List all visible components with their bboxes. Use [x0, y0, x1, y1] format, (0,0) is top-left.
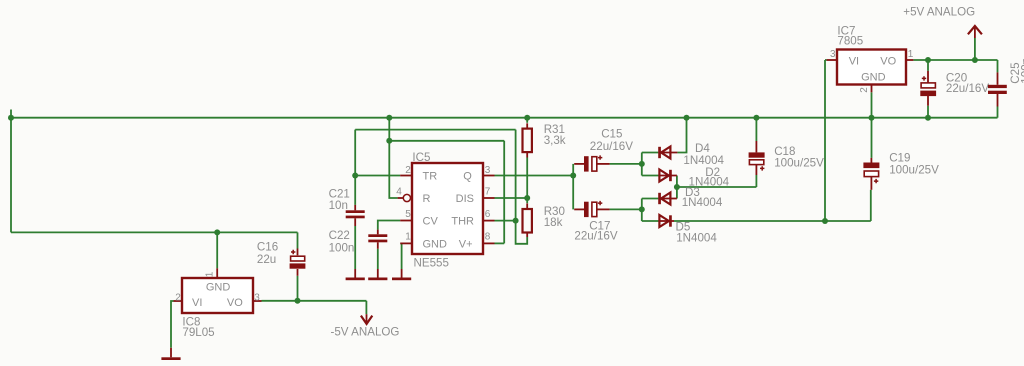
svg-text:V+: V+ — [459, 239, 473, 251]
wire -5V drop — [365, 301, 367, 314]
node junction rail/R31 — [524, 115, 530, 121]
svg-text:VO: VO — [227, 297, 243, 309]
wire IC7 VI vertical — [824, 60, 826, 221]
wire R31 bottom to DIS — [526, 158, 528, 199]
node junction VI/D5 line — [822, 218, 828, 224]
capacitor C17 — [574, 208, 584, 210]
svg-text:1: 1 — [205, 271, 216, 277]
node junction rail/555 — [386, 115, 392, 121]
svg-text:3: 3 — [485, 165, 491, 176]
node junction IC7 gnd/rail — [869, 115, 875, 121]
node junction C15/diodes — [639, 161, 645, 167]
wire lower-left horizontal — [11, 231, 298, 233]
wire D3-D5 vertical — [641, 199, 643, 222]
wire THR to R30 bottom loop — [516, 221, 528, 244]
wire C18 top — [755, 118, 757, 141]
wire stub top-left — [10, 110, 12, 118]
svg-text:C22: C22 — [329, 229, 350, 242]
wire +5V stem — [974, 38, 976, 60]
wire VO line IC8 — [262, 300, 367, 302]
resistor R31 — [526, 123, 528, 128]
svg-text:1N4004: 1N4004 — [683, 154, 724, 167]
svg-text:GND: GND — [861, 71, 886, 83]
svg-text:+5V ANALOG: +5V ANALOG — [903, 6, 975, 19]
node junction v+ link — [386, 138, 392, 144]
svg-text:8: 8 — [485, 231, 491, 242]
capacitor C19 — [870, 158, 872, 163]
svg-text:3,3k: 3,3k — [544, 134, 566, 147]
wire IC7 VI horizontal — [825, 59, 827, 61]
wire D5 output — [674, 220, 871, 222]
node junction DIS/R30 — [524, 195, 530, 201]
wire C21 bottom — [354, 226, 356, 269]
svg-text:VI: VI — [192, 297, 202, 309]
svg-text:3: 3 — [830, 49, 836, 60]
wire V+ link — [389, 140, 504, 142]
svg-text:22u/16V: 22u/16V — [574, 230, 617, 243]
wire reset pin drop — [389, 141, 397, 198]
pin 3 VO lead IC8 — [253, 300, 262, 302]
wire Q output — [495, 175, 574, 177]
wire C15 right — [610, 163, 642, 165]
pin 6 THR lead — [483, 220, 495, 222]
wire THR vertical — [515, 130, 517, 221]
wire C25 top — [997, 60, 999, 72]
node junction C20/VO — [925, 57, 931, 63]
ground under IC8 VI — [170, 348, 172, 358]
wire C17 right — [610, 208, 642, 210]
pin 1 GND lead — [400, 242, 412, 244]
node junction Q branch — [570, 173, 576, 179]
svg-text:C15: C15 — [601, 128, 622, 141]
wire C20 bottom — [927, 106, 929, 118]
diode D4 1N4004 — [661, 152, 677, 154]
wire V+ rail drop — [388, 118, 390, 141]
pin 1 GND lead IC8 — [216, 268, 218, 278]
pin 2 GND lead IC7 — [871, 85, 873, 93]
wire TR vertical — [354, 130, 356, 176]
node junction C16/VO — [295, 298, 301, 304]
pin 2 TR lead — [400, 175, 412, 177]
diode D3 1N4004 — [661, 198, 677, 200]
svg-text:1N4004: 1N4004 — [682, 196, 723, 209]
wire R30 top — [526, 198, 528, 203]
node junction rail left — [8, 115, 14, 121]
capacitor C20 — [927, 71, 929, 83]
svg-text:18k: 18k — [544, 216, 563, 229]
capacitor C22 — [377, 230, 379, 235]
pin 4 R lead — [398, 197, 404, 199]
wire left drop — [10, 118, 12, 233]
wire TR pin horizontal — [355, 175, 400, 177]
svg-text:22u/16V: 22u/16V — [590, 140, 633, 153]
svg-text:VI: VI — [849, 55, 859, 67]
wire to D3 — [642, 198, 659, 200]
pin 8 V+ lead — [483, 242, 495, 244]
wire C25 bottom — [997, 107, 999, 118]
pin 1 VO lead IC7 — [906, 59, 913, 61]
wire V+ pin horizontal — [495, 242, 505, 244]
svg-text:79L05: 79L05 — [182, 326, 214, 339]
wire to D5 — [642, 220, 660, 222]
pin 7 DIS lead — [483, 197, 495, 199]
wire to D4 anode — [642, 152, 659, 154]
svg-text:4: 4 — [396, 186, 402, 197]
svg-text:THR: THR — [451, 216, 474, 228]
wire THR pin horizontal — [495, 220, 516, 222]
svg-text:R: R — [423, 193, 431, 205]
pin 4 inversion bubble — [403, 194, 410, 201]
wire V+ vertical — [503, 141, 505, 244]
pin 3 VI lead IC7 — [827, 59, 837, 61]
wire mid to C18 — [677, 186, 757, 188]
pin 5 CV lead — [400, 220, 412, 222]
wire main rail — [11, 117, 998, 119]
capacitor C15 — [574, 163, 584, 165]
wire D2-D3 vertical — [676, 176, 678, 199]
svg-text:2: 2 — [405, 165, 411, 176]
svg-text:1N4004: 1N4004 — [676, 232, 717, 245]
node junction TR/C21 — [352, 173, 358, 179]
node junction C18/rail — [753, 115, 759, 121]
voltage regulator IC8 79L05 — [182, 278, 253, 313]
capacitor C16 — [297, 249, 299, 256]
svg-text:100n: 100n — [1020, 58, 1024, 84]
node junction D2/D3/C18 — [674, 184, 680, 190]
svg-text:VO: VO — [880, 55, 896, 67]
wire CV pin to C22 — [378, 221, 400, 230]
svg-text:5: 5 — [405, 209, 411, 220]
node junction D4/rail — [684, 115, 690, 121]
svg-text:1: 1 — [908, 49, 914, 60]
node junction +5V/VO — [972, 57, 978, 63]
svg-text:NE555: NE555 — [414, 257, 449, 270]
wire D4 to rail — [677, 118, 686, 153]
svg-text:7: 7 — [485, 186, 491, 197]
node junction C20/rail — [925, 115, 931, 121]
+5V ANALOG supply arrow — [974, 26, 976, 38]
wire TR-THR link — [355, 129, 515, 131]
svg-text:22u: 22u — [257, 253, 276, 266]
svg-text:1: 1 — [405, 232, 411, 243]
wire IC8 GND drop — [216, 232, 218, 268]
svg-text:6: 6 — [485, 209, 491, 220]
svg-text:3: 3 — [254, 292, 260, 303]
svg-text:C16: C16 — [257, 241, 278, 254]
diode D2 1N4004 — [659, 175, 677, 177]
wire D4-D2 vertical — [641, 153, 643, 176]
wire C21 top — [354, 176, 356, 205]
wire 555 GND to ground — [400, 243, 401, 269]
wire IC8 VI to ground — [171, 301, 174, 348]
ground under 555 GND — [401, 269, 403, 278]
wire IC7 GND to rail — [871, 92, 873, 158]
wire C15/C17 branch vertical — [572, 164, 574, 210]
svg-text:TR: TR — [423, 171, 438, 183]
capacitor C18 — [755, 141, 757, 152]
capacitor C21 — [354, 205, 356, 210]
capacitor C25 — [997, 72, 999, 84]
node junction THR — [513, 218, 519, 224]
wire C20 top — [927, 60, 929, 71]
wire C18 bottom riser — [755, 175, 757, 187]
svg-text:IC5: IC5 — [412, 151, 430, 164]
pin 3 Q lead — [483, 175, 495, 177]
wire to D2 — [642, 175, 660, 177]
svg-text:-5V ANALOG: -5V ANALOG — [331, 326, 400, 339]
svg-text:CV: CV — [423, 216, 439, 228]
svg-text:10n: 10n — [329, 199, 348, 212]
svg-text:GND: GND — [423, 239, 448, 251]
svg-text:2: 2 — [859, 87, 870, 93]
wire C19 bottom riser — [870, 190, 872, 221]
wire C22 bottom — [377, 249, 379, 269]
svg-text:100n: 100n — [329, 241, 355, 254]
svg-text:22u/16V: 22u/16V — [946, 82, 989, 95]
voltage regulator IC7 7805 — [837, 50, 906, 85]
svg-text:DIS: DIS — [456, 193, 474, 205]
svg-text:100u/25V: 100u/25V — [889, 164, 939, 177]
node junction C17/diodes — [639, 206, 645, 212]
wire R31 top — [526, 118, 528, 123]
IC U5 timer IC5 NE555 box — [412, 163, 483, 254]
ground under C21 — [354, 269, 356, 278]
resistor R30 — [526, 203, 528, 209]
wire DIS pin horizontal — [495, 197, 528, 199]
-5V ANALOG supply arrow — [366, 314, 368, 324]
pin 2 VI lead IC8 — [174, 300, 183, 302]
svg-text:GND: GND — [206, 281, 231, 293]
svg-text:Q: Q — [463, 171, 472, 183]
wire C16 bottom lead — [297, 276, 299, 301]
node junction IC8 gnd — [214, 229, 220, 235]
svg-text:100u/25V: 100u/25V — [774, 157, 824, 170]
svg-text:7805: 7805 — [837, 35, 863, 48]
svg-text:2: 2 — [175, 292, 181, 303]
ground under C22 — [377, 269, 379, 278]
wire C16 top lead — [297, 232, 299, 248]
diode D5 1N4004 — [659, 220, 674, 222]
wire VO output — [913, 59, 997, 61]
